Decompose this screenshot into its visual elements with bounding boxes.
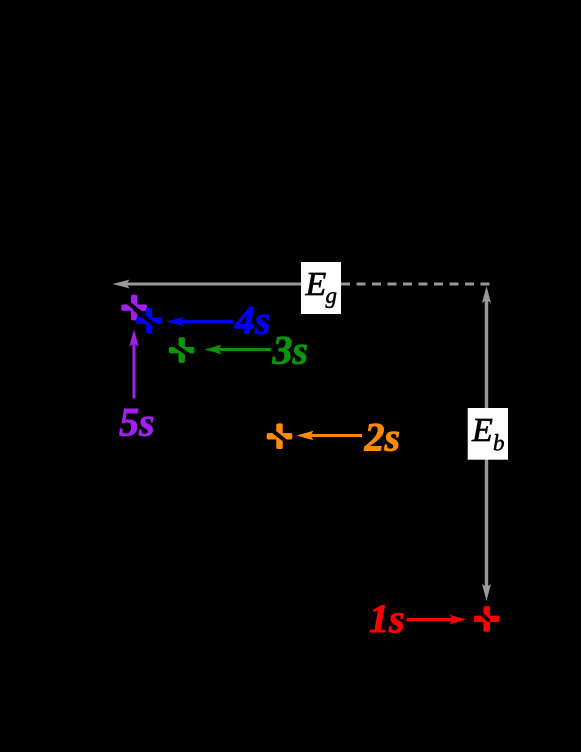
2s exciton marker (orange cross with slash) (265, 423, 295, 449)
svg-text:3s: 3s (272, 328, 309, 373)
exciton binding energy double-headed gray vertical arrow (482, 286, 491, 601)
svg-text:g: g (326, 283, 338, 308)
Eg label text (305, 266, 338, 308)
1s arrow (red, pointing right) (407, 615, 467, 624)
3s exciton marker (green cross with slash) (167, 337, 197, 363)
5s exciton marker (purple cross with slash) (119, 295, 149, 321)
1s exciton marker (red cross with half slash) (474, 606, 500, 632)
svg-text:1s: 1s (369, 596, 405, 641)
3s arrow (green, pointing left) (205, 345, 272, 354)
svg-text:E: E (305, 266, 327, 303)
svg-text:b: b (493, 431, 505, 456)
svg-text:E: E (471, 412, 493, 449)
5s arrow (purple, pointing up) (129, 330, 138, 399)
Eg label white box (301, 262, 341, 314)
band-gap energy arrow Eg: solid gray shaft pointing left (113, 280, 302, 289)
4s exciton marker (blue cross with slash) (134, 308, 164, 334)
Eb label white box (468, 408, 508, 460)
svg-text:5s: 5s (119, 400, 155, 445)
Eg dashed gray reference line to the right of the Eg box (341, 283, 491, 286)
svg-text:2s: 2s (364, 415, 401, 460)
Eb label text (471, 412, 505, 456)
svg-text:4s: 4s (234, 298, 271, 343)
2s arrow (orange, pointing left) (297, 431, 363, 440)
4s arrow (blue, pointing left) (167, 317, 233, 326)
